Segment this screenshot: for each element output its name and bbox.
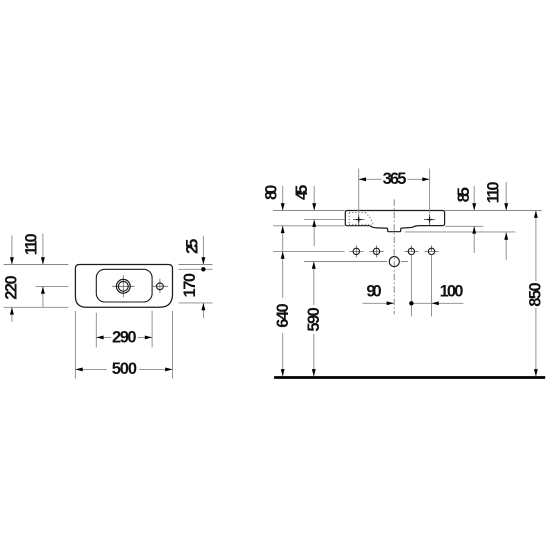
dimension 590 arrows xyxy=(312,262,316,377)
dimension 100 arrow (points left at hole line) xyxy=(432,301,439,305)
dimension 500 arrows xyxy=(75,367,172,371)
svg-text:590: 590 xyxy=(305,307,323,332)
svg-text:170: 170 xyxy=(181,273,199,298)
dimension 110 arrows xyxy=(41,257,45,294)
svg-text:45: 45 xyxy=(293,185,311,200)
extension line: bottom edge, left xyxy=(4,306,69,308)
center line (dash-dot) xyxy=(393,199,395,314)
fixing hole circle 4 xyxy=(424,245,438,254)
svg-text:90: 90 xyxy=(366,283,381,301)
dimension 170 arrow xyxy=(201,303,205,310)
fixing hole circle 3 xyxy=(404,245,418,254)
drain outer circle xyxy=(116,279,130,293)
dimension 90 arrow (points right at centerline) xyxy=(387,301,394,305)
fixing holes extension line xyxy=(273,250,344,252)
dimension 25 line xyxy=(202,236,204,318)
mounting holes extension line xyxy=(304,219,345,221)
dimension 290 arrows xyxy=(96,335,152,339)
top edge extension lines xyxy=(273,210,541,212)
svg-text:85: 85 xyxy=(455,187,473,202)
dimension 365 line xyxy=(359,178,430,180)
floor line xyxy=(274,376,545,379)
drain boss bottom extension line xyxy=(405,231,515,233)
dimension 90/100 line xyxy=(363,302,464,304)
mounting hole cross right xyxy=(424,214,435,225)
svg-text:80: 80 xyxy=(262,185,280,200)
svg-text:220: 220 xyxy=(2,275,20,300)
svg-text:100: 100 xyxy=(440,283,464,301)
dimension 850 line xyxy=(535,211,537,377)
dimension 85 arrows xyxy=(472,203,476,233)
extension lines vertical for 365 xyxy=(359,169,430,214)
extension lines below basin for 500 xyxy=(75,311,172,379)
svg-text:640: 640 xyxy=(274,303,292,328)
dimension 500 line xyxy=(75,368,172,370)
dimension 110 line xyxy=(42,234,44,308)
dimension 25 dot xyxy=(201,267,205,271)
fixing hole circle 1 xyxy=(349,245,363,257)
dimension 85 line xyxy=(473,186,475,253)
dimension 640 line xyxy=(282,251,284,376)
drain inner circle xyxy=(118,281,128,291)
extension lines right of basin (25 / 170) xyxy=(179,265,213,303)
extension line: mid (110) xyxy=(36,285,69,287)
svg-text:110: 110 xyxy=(22,233,40,255)
svg-text:850: 850 xyxy=(526,282,544,307)
drain crosshair xyxy=(112,275,134,297)
svg-text:290: 290 xyxy=(112,329,137,347)
drain pipe circle xyxy=(389,257,399,267)
extension lines below circles 3 and 4 xyxy=(411,255,431,317)
dimension 90/100 shared dot xyxy=(409,301,413,305)
dimension 110 (right) arrows xyxy=(504,203,508,240)
faucet hole crosshair xyxy=(152,279,168,294)
dimension 640 arrows xyxy=(281,251,285,376)
basin outer outline (top view) xyxy=(75,265,172,308)
svg-text:25: 25 xyxy=(184,239,202,254)
bottom edge extension lines xyxy=(273,225,483,228)
dimension 45 line xyxy=(313,186,315,246)
faucet hole circle xyxy=(157,283,164,290)
dimension 25 arrow xyxy=(201,257,205,264)
extension line: top edge, left xyxy=(4,264,69,266)
basin front profile outline xyxy=(345,211,444,232)
dimension 80 arrows xyxy=(281,203,285,233)
dimension 45 arrows xyxy=(312,203,316,227)
dimension 80 line xyxy=(282,186,284,251)
inner bowl outline (top view) xyxy=(96,269,152,302)
svg-text:365: 365 xyxy=(383,170,407,188)
590 level extension line xyxy=(304,261,408,263)
dimension 365 arrows xyxy=(359,177,430,181)
mounting hole cross left xyxy=(353,214,364,225)
svg-text:110: 110 xyxy=(485,181,503,203)
extension lines below basin for 290 xyxy=(96,311,152,348)
svg-text:500: 500 xyxy=(112,360,137,378)
dimension 220 line xyxy=(11,236,13,323)
dimension 850 arrows xyxy=(534,211,538,377)
dimension 290 line xyxy=(96,336,152,338)
fixing hole circle 2 xyxy=(369,245,383,257)
hidden (dotted) inner bowl lines, left end xyxy=(349,213,374,226)
dimension 220 arrows xyxy=(10,257,14,314)
dimension 590 line xyxy=(313,262,315,377)
dimension 110 (right) line xyxy=(505,182,507,260)
